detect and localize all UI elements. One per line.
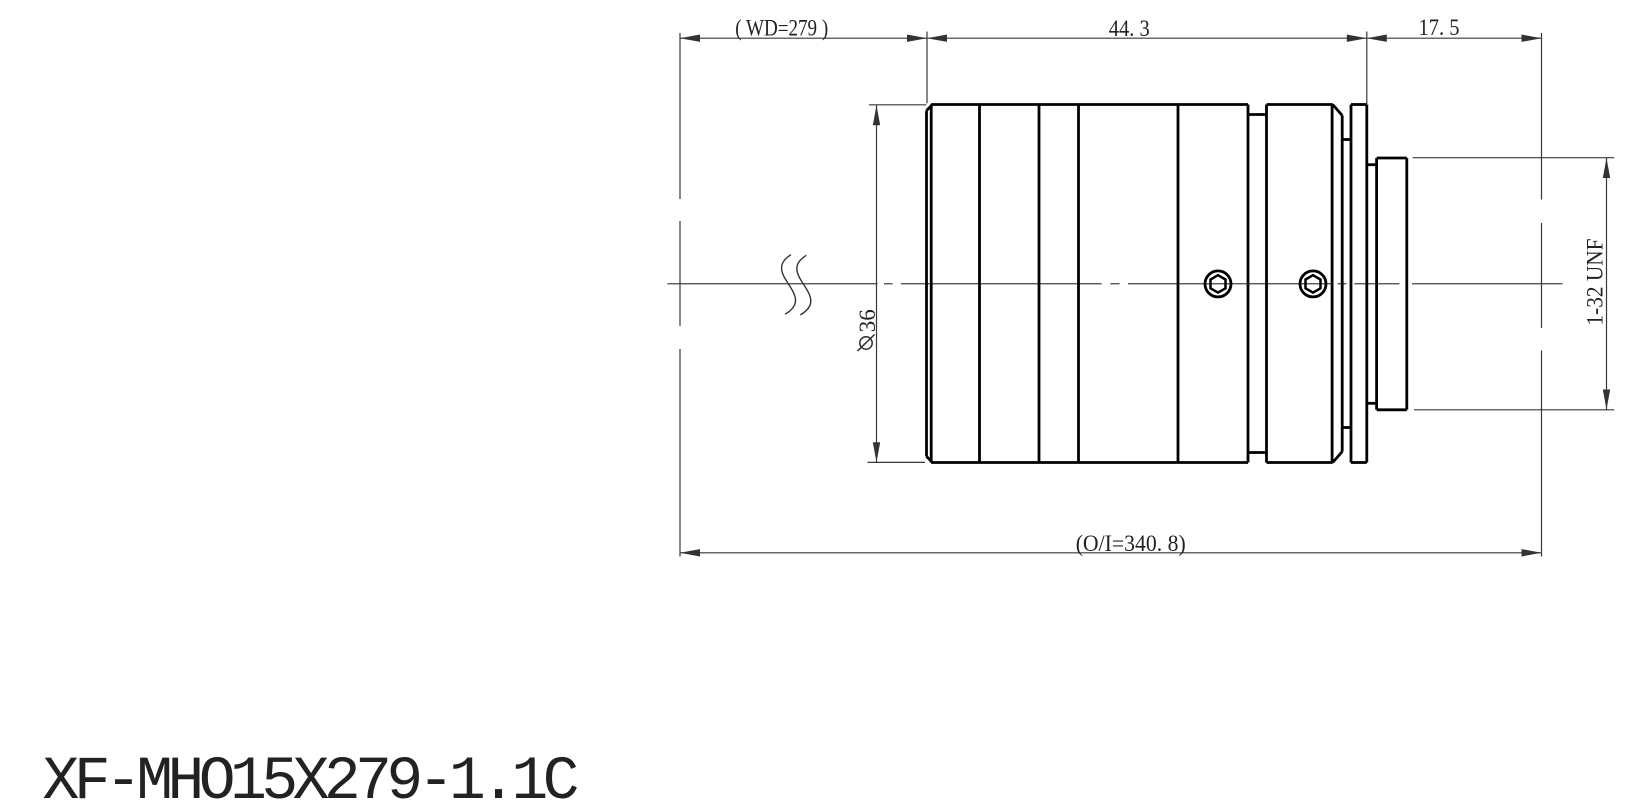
flange plate top edge — [1351, 103, 1367, 106]
front chamfer top diagonal — [927, 104, 933, 110]
rear chamfer projection line — [1331, 105, 1334, 463]
centerline axis — [668, 283, 1563, 285]
arrow O/I left — [680, 549, 700, 556]
break symbol S-curve 2 — [797, 255, 811, 315]
flange plate left edge — [1350, 105, 1353, 463]
svg-text:1-32 UNF: 1-32 UNF — [1582, 239, 1607, 326]
rear face edge — [1341, 115, 1344, 451]
extension line 44.3/17.5 boundary — [1366, 32, 1368, 105]
phi36 bottom extension line — [868, 461, 926, 463]
dimension and extension lines (thin) — [680, 32, 1614, 557]
arrow 44.3 left — [927, 35, 947, 42]
set screw 1 outer circle — [1205, 271, 1231, 297]
UNF bottom extension line — [1414, 409, 1614, 411]
lens body outline (thick) — [927, 104, 1407, 462]
mount thread top edge — [1377, 157, 1407, 160]
mount thread bottom edge — [1377, 408, 1407, 411]
ring joint line 4 — [1177, 105, 1180, 463]
extension line WD/44.3 boundary — [926, 32, 928, 104]
ring joint line 2 — [1038, 105, 1041, 463]
arrow 44.3 right — [1347, 35, 1367, 42]
barrel top edge — [931, 103, 1248, 106]
rear ring top edge — [1267, 103, 1333, 106]
svg-text:36: 36 — [855, 309, 880, 332]
svg-text:( WD=279 ): ( WD=279 ) — [735, 15, 828, 40]
ring joint line 3 — [1077, 105, 1080, 463]
neck ring top edge — [1342, 138, 1351, 141]
rear chamfer bottom diagonal — [1333, 452, 1343, 463]
set screw 1 hex socket — [1211, 275, 1226, 292]
groove top edge — [1248, 113, 1267, 116]
set screw 2 hex socket — [1306, 275, 1321, 292]
flange plate right edge — [1365, 105, 1368, 463]
set screw 2 outer circle — [1300, 271, 1326, 297]
front chamfer edge — [930, 105, 933, 463]
barrel bottom edge — [931, 461, 1248, 464]
svg-text:XF-MHO15X279-1.1C: XF-MHO15X279-1.1C — [43, 748, 580, 812]
rear chamfer top diagonal — [1333, 105, 1343, 116]
ring joint line 1 — [978, 105, 981, 463]
thread relief top edge — [1367, 163, 1377, 166]
arrow phi36 up — [873, 105, 880, 125]
phi symbol slash — [858, 335, 875, 352]
phi36 top extension line — [869, 104, 926, 106]
arrow UNF down — [1603, 390, 1610, 410]
front chamfer bottom diagonal — [927, 456, 933, 462]
UNF top extension line — [1413, 157, 1615, 159]
arrow 17.5 left — [1367, 35, 1387, 42]
arrow 17.5 right — [1522, 35, 1542, 42]
mount thread left face edge — [1375, 158, 1378, 410]
UNF dimension line — [1606, 158, 1608, 410]
bottom dimension line — [680, 552, 1542, 554]
arrow WD left — [680, 35, 700, 42]
svg-text:(O/I=340. 8): (O/I=340. 8) — [1076, 531, 1186, 556]
arrow WD right — [907, 35, 927, 42]
flange plate bottom edge — [1351, 461, 1367, 464]
arrowheads — [680, 35, 1610, 557]
svg-text:17. 5: 17. 5 — [1419, 15, 1460, 40]
arrow UNF up — [1603, 158, 1610, 178]
right extension line (dashed) — [1541, 33, 1543, 557]
thread relief bottom edge — [1367, 402, 1377, 405]
rear ring left edge — [1265, 105, 1268, 463]
arrow O/I right — [1522, 549, 1542, 556]
groove bottom edge — [1248, 451, 1267, 454]
rear ring bottom edge — [1267, 461, 1333, 464]
break symbol S-curve 1 — [782, 255, 796, 315]
arrow phi36 down — [873, 442, 880, 462]
phi36 dimension line — [876, 105, 878, 463]
front face outer edge — [925, 111, 928, 457]
phi symbol circle — [860, 337, 872, 349]
top dimension line — [680, 37, 1542, 39]
neck ring bottom edge — [1342, 426, 1351, 429]
left extension line (dashed) — [679, 33, 681, 557]
focus ring right edge — [1247, 105, 1250, 463]
mount thread right edge — [1405, 158, 1408, 410]
svg-text:44. 3: 44. 3 — [1109, 16, 1150, 41]
